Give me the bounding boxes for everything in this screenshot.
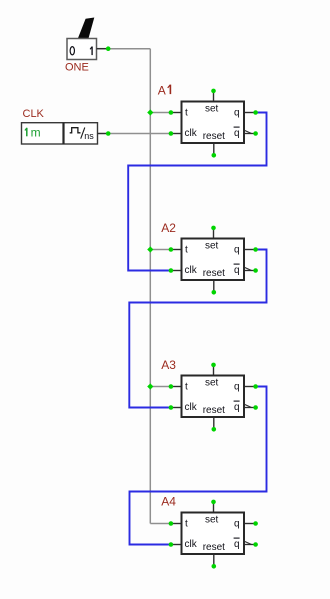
- svg-text:q: q: [234, 402, 240, 413]
- svg-text:t: t: [185, 382, 188, 393]
- svg-text:clk: clk: [185, 539, 198, 550]
- svg-text:q: q: [234, 108, 240, 119]
- svg-text:reset: reset: [203, 542, 225, 553]
- svg-text:set: set: [205, 103, 219, 114]
- svg-text:set: set: [205, 514, 219, 525]
- svg-text:A3: A3: [161, 358, 176, 372]
- svg-text:clk: clk: [185, 265, 198, 276]
- svg-text:clk: clk: [185, 128, 198, 139]
- svg-text:q: q: [234, 245, 240, 256]
- svg-text:q: q: [234, 539, 240, 550]
- svg-text:set: set: [205, 240, 219, 251]
- svg-text:A2: A2: [161, 221, 176, 235]
- svg-text:ONE: ONE: [65, 62, 89, 74]
- svg-text:q: q: [234, 519, 240, 530]
- svg-text:q: q: [234, 128, 240, 139]
- svg-text:reset: reset: [203, 131, 225, 142]
- svg-text:clk: clk: [185, 402, 198, 413]
- svg-text:t: t: [185, 519, 188, 530]
- svg-text:CLK: CLK: [23, 108, 45, 120]
- svg-text:ns: ns: [84, 131, 94, 141]
- svg-text:reset: reset: [203, 405, 225, 416]
- svg-text:A: A: [158, 83, 166, 97]
- svg-text:reset: reset: [203, 268, 225, 279]
- svg-text:q: q: [234, 382, 240, 393]
- svg-text:t: t: [185, 245, 188, 256]
- svg-text:q: q: [234, 265, 240, 276]
- svg-text:A4: A4: [161, 494, 176, 508]
- svg-text:set: set: [205, 377, 219, 388]
- svg-text:m: m: [31, 125, 41, 139]
- svg-text:t: t: [185, 108, 188, 119]
